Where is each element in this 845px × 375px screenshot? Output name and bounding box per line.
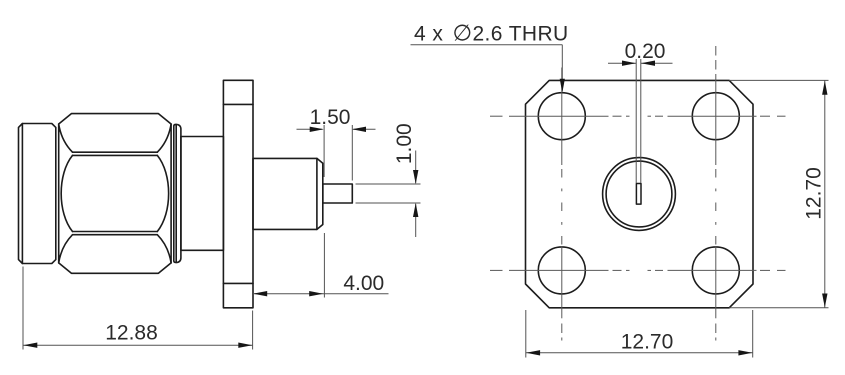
dimension 4.00 barrel length: [253, 233, 389, 298]
dielectric barrel (rear extension, side view): [253, 158, 323, 229]
contact pin tab (side view): [323, 184, 353, 203]
mounting hole top-right: [692, 93, 739, 140]
coupling nut front ring (side view): [19, 124, 56, 264]
centerline row bottom holes: [490, 269, 786, 271]
mounting hole bottom-left: [538, 247, 585, 294]
centerline column right holes: [715, 46, 717, 341]
leader 4 x dia 2.6 THRU: [411, 45, 565, 93]
svg-text:12.70: 12.70: [621, 331, 674, 354]
dimension 0.20 tab thickness: [608, 59, 673, 183]
center contact tab slot (front view): [636, 184, 641, 205]
svg-text:1.00: 1.00: [393, 123, 416, 164]
dielectric outer circle (front view): [603, 158, 676, 231]
svg-text:12.70: 12.70: [803, 167, 826, 220]
body cylinder between washer and flange: [181, 137, 224, 251]
dimension 1.50 pin length: [297, 125, 376, 181]
hex nut (side view): [59, 114, 171, 274]
flange square (front view): [526, 80, 754, 307]
dimension 12.88 overall length: [23, 267, 253, 350]
dimension 1.00 pin diameter: [356, 151, 421, 238]
svg-text:4.00: 4.00: [343, 272, 384, 295]
centerline column left holes: [561, 68, 563, 341]
svg-text:1.50: 1.50: [310, 106, 351, 129]
svg-text:4 x ∅2.6 THRU: 4 x ∅2.6 THRU: [414, 21, 569, 46]
mounting hole bottom-right: [692, 247, 739, 294]
centerline row top holes: [490, 115, 786, 117]
svg-text:12.88: 12.88: [105, 322, 158, 345]
dimension 12.70 flange height: [729, 80, 828, 307]
flange (side view): [223, 80, 253, 307]
mounting hole top-left: [538, 93, 585, 140]
dimension 12.70 flange width: [526, 310, 753, 358]
dielectric inner circle (front view): [606, 161, 672, 227]
gasket washer behind hex: [174, 124, 181, 262]
svg-text:0.20: 0.20: [625, 40, 666, 63]
